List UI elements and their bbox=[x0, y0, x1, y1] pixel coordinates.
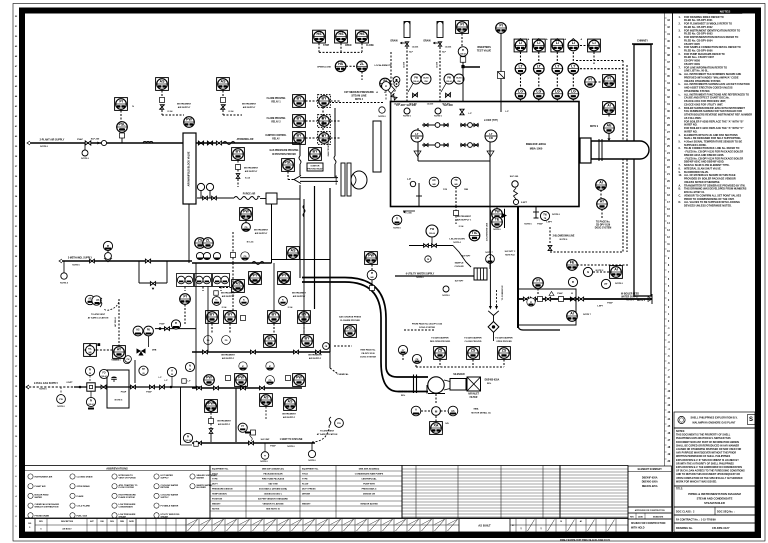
svg-text:2-040F (TYP): 2-040F (TYP) bbox=[484, 119, 498, 122]
svg-text:IGNITOR: IGNITOR bbox=[311, 165, 320, 167]
svg-text:NOTE 6: NOTE 6 bbox=[308, 460, 316, 462]
svg-text:NOTE 6: NOTE 6 bbox=[40, 146, 48, 148]
svg-text:PI: PI bbox=[499, 24, 502, 28]
svg-text:AS: AS bbox=[291, 249, 297, 253]
svg-text:b.: b. bbox=[679, 83, 682, 86]
svg-text:STEAM BOILER: STEAM BOILER bbox=[704, 501, 725, 505]
svg-text:FUEL GAS: FUEL GAS bbox=[77, 514, 88, 517]
svg-text:NOTE 6: NOTE 6 bbox=[287, 446, 295, 448]
svg-text:INSTRUMENT: INSTRUMENT bbox=[217, 421, 231, 423]
svg-text:1/2-306: 1/2-306 bbox=[437, 62, 439, 68]
svg-text:2-BLOWDOWN LINE: 2-BLOWDOWN LINE bbox=[553, 236, 575, 238]
svg-text:RELAY 2: RELAY 2 bbox=[271, 121, 281, 124]
svg-text:NOTE 6: NOTE 6 bbox=[403, 116, 411, 118]
svg-text:NOTE 6: NOTE 6 bbox=[72, 265, 80, 267]
svg-text:1/2-306: 1/2-306 bbox=[404, 62, 406, 68]
svg-text:BY: BY bbox=[297, 117, 303, 121]
svg-text:BLVD: BLVD bbox=[423, 77, 429, 79]
svg-text:6160 BAR-G (STEAM DATA): 6160 BAR-G (STEAM DATA) bbox=[259, 488, 287, 491]
svg-text:NOTE 6: NOTE 6 bbox=[260, 461, 268, 463]
svg-text:TO PAGE No.: TO PAGE No. bbox=[596, 221, 611, 224]
svg-text:PW: PW bbox=[238, 376, 244, 380]
svg-text:OF SUCH LOAN AGREES TO THE FOR: OF SUCH LOAN AGREES TO THE FOREGOING CON… bbox=[676, 470, 745, 473]
svg-text:W-BOILER FEED: W-BOILER FEED bbox=[621, 294, 639, 296]
svg-text:SLP-NPT C: SLP-NPT C bbox=[505, 251, 516, 253]
svg-text:590-04: 590-04 bbox=[185, 439, 190, 442]
svg-text:1-NPT: 1-NPT bbox=[546, 222, 553, 224]
svg-text:WRITTEN PERMISSION OF SHELL PH: WRITTEN PERMISSION OF SHELL PHILIPPINES bbox=[676, 455, 731, 458]
svg-text:F.D AIR DAMPER: F.D AIR DAMPER bbox=[464, 337, 482, 340]
svg-text:SEE NOTE 10: SEE NOTE 10 bbox=[266, 509, 281, 511]
svg-text:DATE: DATE bbox=[638, 515, 643, 518]
svg-text:FE: FE bbox=[570, 261, 575, 265]
svg-text:AIR SUPPLY: AIR SUPPLY bbox=[283, 416, 296, 419]
svg-text:PW: PW bbox=[206, 376, 212, 380]
svg-text:BY: BY bbox=[322, 97, 328, 101]
svg-text:NOTE 4: NOTE 4 bbox=[355, 98, 364, 101]
svg-text:TEMP DESIGN: TEMP DESIGN bbox=[212, 494, 227, 496]
svg-text:VENDOR ADVISE: VENDOR ADVISE bbox=[360, 503, 378, 506]
svg-text:IC-04: IC-04 bbox=[229, 110, 235, 113]
svg-text:DOC SEQ No. :: DOC SEQ No. : bbox=[717, 510, 735, 513]
svg-text:ABBREVIATIONS: ABBREVIATIONS bbox=[106, 466, 128, 470]
svg-text:EXPLORATION B.V. IF THIS DOCUM: EXPLORATION B.V. IF THIS DOCUMENT IS LOA… bbox=[676, 459, 739, 462]
svg-text:LI: LI bbox=[592, 41, 595, 45]
svg-text:SAT STM: SAT STM bbox=[268, 483, 277, 486]
svg-text:AIR SUPPLY: AIR SUPPLY bbox=[243, 106, 256, 109]
svg-text:AI: AI bbox=[587, 271, 590, 274]
svg-text:LT: LT bbox=[415, 132, 419, 136]
svg-text:AI: AI bbox=[570, 312, 574, 316]
svg-text:W/INLET DISTRIBUTION: W/INLET DISTRIBUTION bbox=[35, 507, 59, 509]
svg-text:L.P: L.P bbox=[505, 111, 509, 113]
svg-text:OR WITH THE AUTHORITY OF SHELL: OR WITH THE AUTHORITY OF SHELL PHILIPPIN… bbox=[676, 462, 734, 465]
svg-text:LI: LI bbox=[537, 41, 540, 45]
svg-text:PI: PI bbox=[572, 282, 575, 284]
svg-text:DRIVER: DRIVER bbox=[302, 494, 310, 496]
svg-text:INSTRUMENT: INSTRUMENT bbox=[177, 104, 192, 106]
svg-text:FLAME PROVING: FLAME PROVING bbox=[267, 117, 286, 120]
svg-text:L2: L2 bbox=[376, 92, 378, 94]
svg-text:ANY PURPOSE WHATSOEVER WITHOUT: ANY PURPOSE WHATSOEVER WITHOUT THE PRIOR bbox=[676, 452, 736, 455]
svg-text:FLARE SYSTEM: FLARE SYSTEM bbox=[119, 496, 135, 499]
svg-text:TC: TC bbox=[454, 179, 457, 182]
svg-text:NOTE 6: NOTE 6 bbox=[115, 400, 123, 402]
svg-text:B.: B. bbox=[679, 188, 682, 191]
svg-text:SUPPLY: SUPPLY bbox=[161, 497, 170, 499]
svg-text:PI: PI bbox=[588, 78, 591, 82]
svg-text:040: 040 bbox=[89, 351, 92, 354]
svg-text:AS PER VENDOR STANDARD: AS PER VENDOR STANDARD bbox=[258, 498, 288, 501]
svg-text:EQUIPMENT No.: EQUIPMENT No. bbox=[212, 469, 229, 471]
svg-text:BY: BY bbox=[236, 150, 242, 154]
svg-text:SLP-309: SLP-309 bbox=[510, 176, 519, 178]
svg-text:SIGNATURE: SIGNATURE bbox=[653, 515, 664, 518]
svg-text:POTABLE WATER: POTABLE WATER bbox=[161, 505, 179, 508]
svg-text:AS: AS bbox=[160, 80, 166, 84]
svg-text:AS: AS bbox=[264, 396, 270, 400]
svg-text:F.D AIR DAMPER: F.D AIR DAMPER bbox=[431, 337, 449, 340]
svg-text:CB-DPE-0127: CB-DPE-0127 bbox=[712, 526, 730, 530]
svg-text:AT SAFE LOCATION: AT SAFE LOCATION bbox=[88, 317, 109, 320]
svg-text:DBE 40W-920A/B/(1): DBE 40W-920A/B/(1) bbox=[359, 468, 380, 471]
svg-text:CONDENSATE RAW PUMPS: CONDENSATE RAW PUMPS bbox=[355, 473, 384, 476]
svg-text:HS: HS bbox=[317, 32, 323, 36]
svg-text:590-04: 590-04 bbox=[88, 403, 93, 406]
svg-text:2-METHANOL SUPPLY: 2-METHANOL SUPPLY bbox=[68, 257, 93, 260]
svg-text:ZS: ZS bbox=[198, 239, 203, 243]
svg-text:AS: AS bbox=[288, 400, 294, 404]
svg-text:NOTE 6: NOTE 6 bbox=[560, 239, 568, 241]
svg-text:BLVD: BLVD bbox=[456, 77, 462, 79]
svg-text:NOTE 6: NOTE 6 bbox=[552, 214, 560, 216]
svg-text:BY: BY bbox=[297, 97, 303, 101]
svg-text:IN POSITION PROVED: IN POSITION PROVED bbox=[272, 154, 296, 156]
svg-text:BY: BY bbox=[228, 313, 234, 317]
svg-text:10.: 10. bbox=[679, 174, 683, 177]
svg-text:SHALL BE COPIED OR REPRODUCED: SHALL BE COPIED OR REPRODUCED IN ANY MAN… bbox=[676, 444, 739, 447]
svg-text:SILENCER: SILENCER bbox=[453, 374, 465, 376]
svg-text:6.: 6. bbox=[679, 147, 681, 150]
svg-text:BURNER: BURNER bbox=[336, 175, 338, 185]
svg-text:A: A bbox=[415, 409, 417, 412]
svg-text:LG: LG bbox=[518, 89, 523, 93]
svg-text:6.: 6. bbox=[679, 53, 681, 56]
svg-text:CONDENSATE: CONDENSATE bbox=[119, 506, 134, 509]
svg-text:5.: 5. bbox=[679, 46, 681, 49]
svg-text:LOANED OR OTHERWISE DISPOSED O: LOANED OR OTHERWISE DISPOSED OR NOR USED… bbox=[676, 448, 742, 451]
svg-text:IGNITOR CONTROL: IGNITOR CONTROL bbox=[265, 135, 287, 137]
svg-text:CHIMNEY: CHIMNEY bbox=[637, 40, 648, 43]
svg-text:590-04: 590-04 bbox=[101, 375, 106, 378]
svg-text:INSTRUMENT: INSTRUMENT bbox=[282, 414, 296, 416]
svg-text:2-FUEL GAS SUPPLY: 2-FUEL GAS SUPPLY bbox=[34, 382, 58, 385]
svg-text:NOTE 6: NOTE 6 bbox=[393, 228, 401, 230]
svg-text:EXPLORATION B.V. THE BORROWER: EXPLORATION B.V. THE BORROWER IN CONSIDE… bbox=[676, 466, 742, 469]
svg-text:PS&P: PS&P bbox=[537, 224, 543, 226]
svg-text:PS&P: PS&P bbox=[77, 139, 83, 141]
svg-text:NOTE 4: NOTE 4 bbox=[60, 282, 68, 285]
svg-text:VENT OR PURGE: VENT OR PURGE bbox=[119, 478, 137, 480]
svg-text:PI: PI bbox=[90, 400, 93, 402]
svg-text:ZS: ZS bbox=[471, 349, 476, 353]
svg-text:FLOW: FLOW bbox=[302, 484, 308, 486]
svg-text:MBA-1000: MBA-1000 bbox=[530, 147, 543, 151]
svg-text:AS: AS bbox=[221, 80, 227, 84]
svg-text:1-306: 1-306 bbox=[406, 213, 412, 215]
svg-text:20: 20 bbox=[171, 374, 173, 376]
svg-text:1-NPT: 1-NPT bbox=[597, 306, 604, 308]
svg-text:AIR SUPPLY: AIR SUPPLY bbox=[309, 357, 322, 360]
svg-text:NOTE FLD: NOTE FLD bbox=[505, 255, 515, 257]
svg-text:PROVING RELAY: PROVING RELAY bbox=[308, 168, 324, 171]
svg-text:WATER SUPPLY: WATER SUPPLY bbox=[621, 296, 639, 299]
svg-text:INSTRUMENT: INSTRUMENT bbox=[292, 293, 307, 295]
svg-text:AIR SUPPLY: AIR SUPPLY bbox=[222, 357, 235, 360]
svg-text:PI: PI bbox=[460, 23, 463, 27]
svg-text:TW: TW bbox=[494, 210, 500, 214]
svg-text:RELAY: RELAY bbox=[272, 138, 280, 141]
svg-text:PS&P: PS&P bbox=[146, 391, 152, 393]
svg-text:PRESS BAR-G: PRESS BAR-G bbox=[362, 488, 377, 491]
svg-text:NOTES: NOTES bbox=[720, 10, 731, 14]
svg-text:NOTE 6: NOTE 6 bbox=[493, 229, 501, 231]
svg-text:S/S: S/S bbox=[445, 423, 449, 425]
svg-text:OPEN/CLOSE: OPEN/CLOSE bbox=[317, 66, 332, 68]
svg-text:AND TO RETURN THIS DOCUMENT UP: AND TO RETURN THIS DOCUMENT UPON REQUEST… bbox=[676, 473, 740, 476]
svg-text:INSTRUMENT: INSTRUMENT bbox=[244, 168, 259, 170]
svg-text:AI: AI bbox=[607, 104, 611, 108]
svg-text:PW: PW bbox=[243, 210, 249, 214]
svg-text:NOTE 6: NOTE 6 bbox=[57, 406, 65, 408]
svg-text:ZS: ZS bbox=[438, 349, 443, 353]
svg-text:20: 20 bbox=[89, 373, 91, 375]
svg-text:PI: PI bbox=[536, 279, 539, 283]
svg-text:ATOMIZING AIR: ATOMIZING AIR bbox=[237, 138, 254, 141]
svg-text:FLOW SYSTEM: FLOW SYSTEM bbox=[119, 487, 135, 489]
svg-text:SAMPLE: SAMPLE bbox=[455, 262, 464, 265]
svg-text:DBE485-635A: DBE485-635A bbox=[485, 379, 500, 382]
svg-text:AI: AI bbox=[599, 181, 603, 185]
svg-text:DRAIN: DRAIN bbox=[390, 40, 397, 43]
svg-text:INSTRUMENT: INSTRUMENT bbox=[242, 104, 257, 106]
svg-text:MBA: MBA bbox=[474, 408, 479, 411]
svg-text:WEIGHT: WEIGHT bbox=[212, 504, 221, 506]
svg-text:L.P: L.P bbox=[407, 179, 411, 181]
svg-text:SLP-NPT: SLP-NPT bbox=[455, 281, 464, 283]
svg-text:2-PLANT AIR SUPPLY: 2-PLANT AIR SUPPLY bbox=[40, 139, 65, 142]
svg-text:BY: BY bbox=[272, 313, 278, 317]
svg-text:N IC-04: N IC-04 bbox=[247, 241, 254, 244]
svg-text:ZS: ZS bbox=[502, 349, 507, 353]
svg-text:3.: 3. bbox=[679, 29, 681, 32]
svg-text:1.: 1. bbox=[679, 16, 681, 19]
svg-text:2-NPT: 2-NPT bbox=[66, 382, 73, 384]
svg-text:AIR SUPPLY: AIR SUPPLY bbox=[255, 232, 268, 235]
svg-text:HS: HS bbox=[338, 62, 344, 66]
svg-text:APPROVED FOR CONSTRUCTION: APPROVED FOR CONSTRUCTION bbox=[635, 509, 666, 512]
svg-text:WEIGHT: WEIGHT bbox=[302, 504, 311, 506]
svg-text:MOTOR DETAIL 1A: MOTOR DETAIL 1A bbox=[471, 412, 491, 415]
svg-text:DRAIN: DRAIN bbox=[423, 40, 430, 43]
svg-text:590-04: 590-04 bbox=[460, 53, 465, 56]
svg-text:590-04: 590-04 bbox=[446, 80, 451, 83]
svg-text:DBE40K-920B: DBE40K-920B bbox=[398, 391, 413, 394]
svg-text:AIR SUPPLY: AIR SUPPLY bbox=[218, 423, 231, 426]
svg-text:FO: FO bbox=[102, 372, 105, 374]
svg-text:590-04: 590-04 bbox=[429, 232, 435, 235]
svg-text:AY: AY bbox=[117, 348, 122, 352]
svg-text:AIR SUPPLY 1: AIR SUPPLY 1 bbox=[457, 219, 472, 222]
svg-text:DOC CLASS : 2: DOC CLASS : 2 bbox=[676, 510, 695, 513]
svg-text:CHEMICAL: CHEMICAL bbox=[337, 373, 349, 376]
svg-text:2.: 2. bbox=[679, 107, 681, 110]
svg-text:TO ATM VENT: TO ATM VENT bbox=[91, 313, 106, 316]
svg-text:F.D AIR DAMPER: F.D AIR DAMPER bbox=[495, 337, 513, 340]
svg-text:PI: PI bbox=[187, 436, 190, 438]
svg-text:GAS PRESSURE PROVING: GAS PRESSURE PROVING bbox=[270, 149, 299, 152]
svg-text:DOSG SYSTEM: DOSG SYSTEM bbox=[360, 357, 376, 359]
svg-text:FA CONTRACT No. : 1-15-7700/99: FA CONTRACT No. : 1-15-7700/99 bbox=[676, 519, 716, 522]
svg-text:SUPPLY: SUPPLY bbox=[161, 478, 170, 480]
svg-text:TEST VALVE: TEST VALVE bbox=[477, 50, 492, 53]
svg-text:50%: 50% bbox=[487, 383, 491, 385]
svg-text:CLOSE: CLOSE bbox=[366, 45, 374, 47]
svg-text:INSTRUMENT: INSTRUMENT bbox=[254, 230, 269, 232]
svg-text:STEAM LINE: STEAM LINE bbox=[351, 95, 366, 98]
svg-text:4.: 4. bbox=[679, 134, 681, 137]
svg-text:PI: PI bbox=[119, 100, 122, 104]
svg-text:PW: PW bbox=[59, 399, 62, 401]
svg-text:PS&P: PS&P bbox=[557, 293, 563, 295]
svg-text:2-NPT: 2-NPT bbox=[521, 202, 528, 204]
svg-text:1-VENT TO ATM LINE: 1-VENT TO ATM LINE bbox=[280, 438, 303, 441]
svg-text:PY: PY bbox=[241, 426, 245, 428]
svg-text:NOTE 6: NOTE 6 bbox=[524, 224, 532, 226]
svg-text:AC: AC bbox=[432, 179, 436, 182]
svg-text:STEAM AND CONDENSATE: STEAM AND CONDENSATE bbox=[697, 497, 733, 501]
svg-text:DRAWING No.: DRAWING No. bbox=[676, 527, 693, 530]
svg-text:PURGE AIR: PURGE AIR bbox=[243, 193, 256, 196]
svg-text:OPEN: OPEN bbox=[345, 45, 352, 47]
svg-text:AE: AE bbox=[607, 124, 613, 128]
svg-text:4.: 4. bbox=[679, 36, 681, 39]
svg-text:WORK FOR WHICH IT WAS ISSUED.: WORK FOR WHICH IT WAS ISSUED. bbox=[676, 480, 717, 483]
svg-text:2-BLOWDOWN LINE: 2-BLOWDOWN LINE bbox=[487, 222, 489, 241]
svg-text:NOTE 6: NOTE 6 bbox=[626, 300, 634, 302]
svg-text:PI: PI bbox=[607, 77, 610, 81]
svg-text:BY: BY bbox=[313, 150, 319, 154]
svg-text:PUMP WTR: PUMP WTR bbox=[363, 484, 375, 486]
svg-text:PS&P: PS&P bbox=[607, 303, 613, 305]
svg-text:NOTE 6: NOTE 6 bbox=[81, 158, 89, 160]
svg-text:HS: HS bbox=[360, 32, 366, 36]
svg-text:PS&P: PS&P bbox=[270, 446, 276, 448]
svg-text:HS: HS bbox=[339, 32, 345, 36]
svg-text:PRESSURE DESIGN: PRESSURE DESIGN bbox=[212, 489, 233, 491]
svg-text:FLAME PROVING: FLAME PROVING bbox=[267, 97, 286, 100]
svg-text:INSTRUMENT: INSTRUMENT bbox=[457, 216, 472, 218]
svg-text:FILTER: FILTER bbox=[470, 397, 478, 399]
svg-text:INSTRUMENT: INSTRUMENT bbox=[221, 355, 235, 357]
svg-text:FLARE: FLARE bbox=[77, 495, 85, 498]
svg-text:DBE40G-920A: DBE40G-920A bbox=[642, 481, 658, 484]
svg-text:STOP: STOP bbox=[323, 45, 330, 47]
svg-text:1a.: 1a. bbox=[679, 73, 683, 76]
svg-text:DOCUMENT NOR ANY PART OF INFOR: DOCUMENT NOR ANY PART OF INFORMATION HER… bbox=[676, 441, 739, 444]
svg-text:DOSG SYSTEM: DOSG SYSTEM bbox=[419, 327, 435, 329]
svg-text:AI: AI bbox=[189, 364, 192, 367]
svg-text:TITLE:: TITLE: bbox=[676, 489, 683, 491]
svg-text:MALAMPAYA ONSHORE GAS PLANT: MALAMPAYA ONSHORE GAS PLANT bbox=[693, 422, 736, 425]
svg-text:PSL: PSL bbox=[119, 123, 127, 127]
svg-text:OPEN PROVED: OPEN PROVED bbox=[496, 341, 512, 343]
svg-text:1/2-306: 1/2-306 bbox=[412, 47, 418, 49]
svg-text:CLOSED DRAIN: CLOSED DRAIN bbox=[77, 476, 93, 479]
svg-text:PHONE DRAIN: PHONE DRAIN bbox=[35, 514, 50, 517]
svg-text:CENTRIFUGAL: CENTRIFUGAL bbox=[361, 478, 377, 481]
svg-text:WATER: WATER bbox=[35, 496, 43, 499]
svg-text:DUTY: DUTY bbox=[212, 484, 218, 486]
svg-text:1-BLOW DOWN: 1-BLOW DOWN bbox=[449, 239, 465, 241]
svg-text:NOTE 7: NOTE 7 bbox=[485, 252, 493, 254]
svg-text:FIRE TUBE PACKAGE: FIRE TUBE PACKAGE bbox=[262, 478, 285, 481]
svg-text:WITH HOLD: WITH HOLD bbox=[631, 527, 645, 530]
svg-text:040: 040 bbox=[489, 137, 494, 140]
svg-text:LI: LI bbox=[556, 41, 559, 45]
svg-text:IC-04: IC-04 bbox=[245, 177, 251, 180]
svg-text:AS BUILT: AS BUILT bbox=[478, 524, 491, 528]
svg-text:CB-DPY-0126: CB-DPY-0126 bbox=[596, 225, 611, 227]
svg-text:YCN: YCN bbox=[443, 189, 448, 191]
svg-text:HS: HS bbox=[136, 329, 140, 331]
svg-text:LG: LG bbox=[536, 89, 541, 93]
svg-text:DE2 OPEN PROVED: DE2 OPEN PROVED bbox=[430, 341, 451, 343]
svg-text:OPEN DRAIN: OPEN DRAIN bbox=[77, 485, 91, 488]
svg-text:BY: BY bbox=[305, 337, 311, 341]
svg-text:NOTE 7: NOTE 7 bbox=[583, 314, 591, 316]
svg-text:NOTE 6: NOTE 6 bbox=[416, 277, 424, 279]
svg-text:IC-04: IC-04 bbox=[168, 110, 174, 113]
svg-text:1/2-309: 1/2-309 bbox=[394, 104, 400, 106]
svg-text:PW: PW bbox=[186, 118, 192, 122]
svg-text:TITLE: TITLE bbox=[212, 474, 218, 476]
svg-text:LG: LG bbox=[555, 89, 560, 93]
svg-text:DBE40F-920A: DBE40F-920A bbox=[526, 142, 547, 146]
svg-text:AS BUILT: AS BUILT bbox=[62, 528, 72, 531]
svg-text:EQUIPMENT No.: EQUIPMENT No. bbox=[302, 469, 319, 471]
svg-text:NOTE 6: NOTE 6 bbox=[113, 360, 121, 362]
svg-text:6-UTILITY WATER SUPPLY: 6-UTILITY WATER SUPPLY bbox=[406, 273, 435, 276]
svg-text:TYPE: TYPE bbox=[302, 479, 308, 481]
svg-text:PSL: PSL bbox=[285, 161, 293, 165]
svg-text:GAS PROVING LINES: GAS PROVING LINES bbox=[327, 135, 330, 156]
svg-text:DRB: DRB bbox=[152, 350, 157, 352]
svg-text:LG: LG bbox=[571, 89, 576, 93]
svg-text:1/2-306: 1/2-306 bbox=[445, 47, 451, 49]
svg-text:RELAY 1: RELAY 1 bbox=[271, 101, 281, 104]
svg-text:CLOSE PROVED: CLOSE PROVED bbox=[465, 341, 482, 343]
svg-text:PHILIPPINES EXPLORATION B.V. N: PHILIPPINES EXPLORATION B.V. NEITHER THI… bbox=[676, 437, 731, 440]
svg-text:LT: LT bbox=[489, 132, 493, 136]
svg-text:BY: BY bbox=[297, 134, 303, 138]
svg-text:160DEG/30 DEG C: 160DEG/30 DEG C bbox=[264, 494, 283, 496]
svg-text:BY: BY bbox=[322, 134, 328, 138]
svg-text:DESCRIPTION: DESCRIPTION bbox=[61, 521, 74, 523]
svg-text:DATE: DATE bbox=[129, 520, 134, 523]
svg-text:C.: C. bbox=[679, 194, 682, 197]
svg-text:BY: BY bbox=[268, 337, 274, 341]
svg-text:SLP-309: SLP-309 bbox=[409, 104, 416, 106]
svg-text:DESIGN kW: DESIGN kW bbox=[363, 494, 375, 496]
svg-text:YBN: YBN bbox=[464, 189, 469, 191]
svg-text:INSTRUMENT AIR: INSTRUMENT AIR bbox=[35, 476, 53, 479]
svg-text:PI: PI bbox=[183, 295, 186, 299]
svg-text:AIR SUPPLY: AIR SUPPLY bbox=[178, 106, 191, 109]
svg-text:UPON COMPLETION OF THE SPECIFI: UPON COMPLETION OF THE SPECIFICALLY AUTH… bbox=[676, 477, 743, 480]
svg-text:L.P: L.P bbox=[468, 113, 472, 115]
svg-text:NOTE 9: NOTE 9 bbox=[590, 126, 599, 128]
svg-text:TE: TE bbox=[495, 218, 500, 222]
svg-text:NOTE 6: NOTE 6 bbox=[39, 388, 47, 390]
svg-text:DBE40F-920A: DBE40F-920A bbox=[642, 477, 658, 480]
svg-text:040: 040 bbox=[415, 137, 420, 140]
svg-text:AIT 590-04: AIT 590-04 bbox=[114, 316, 117, 326]
svg-text:5.: 5. bbox=[679, 140, 681, 143]
svg-text:BLOWER: BLOWER bbox=[197, 487, 207, 489]
svg-text:TO CONVEYOR: TO CONVEYOR bbox=[502, 285, 504, 300]
svg-text:POSITION: POSITION bbox=[212, 499, 223, 501]
